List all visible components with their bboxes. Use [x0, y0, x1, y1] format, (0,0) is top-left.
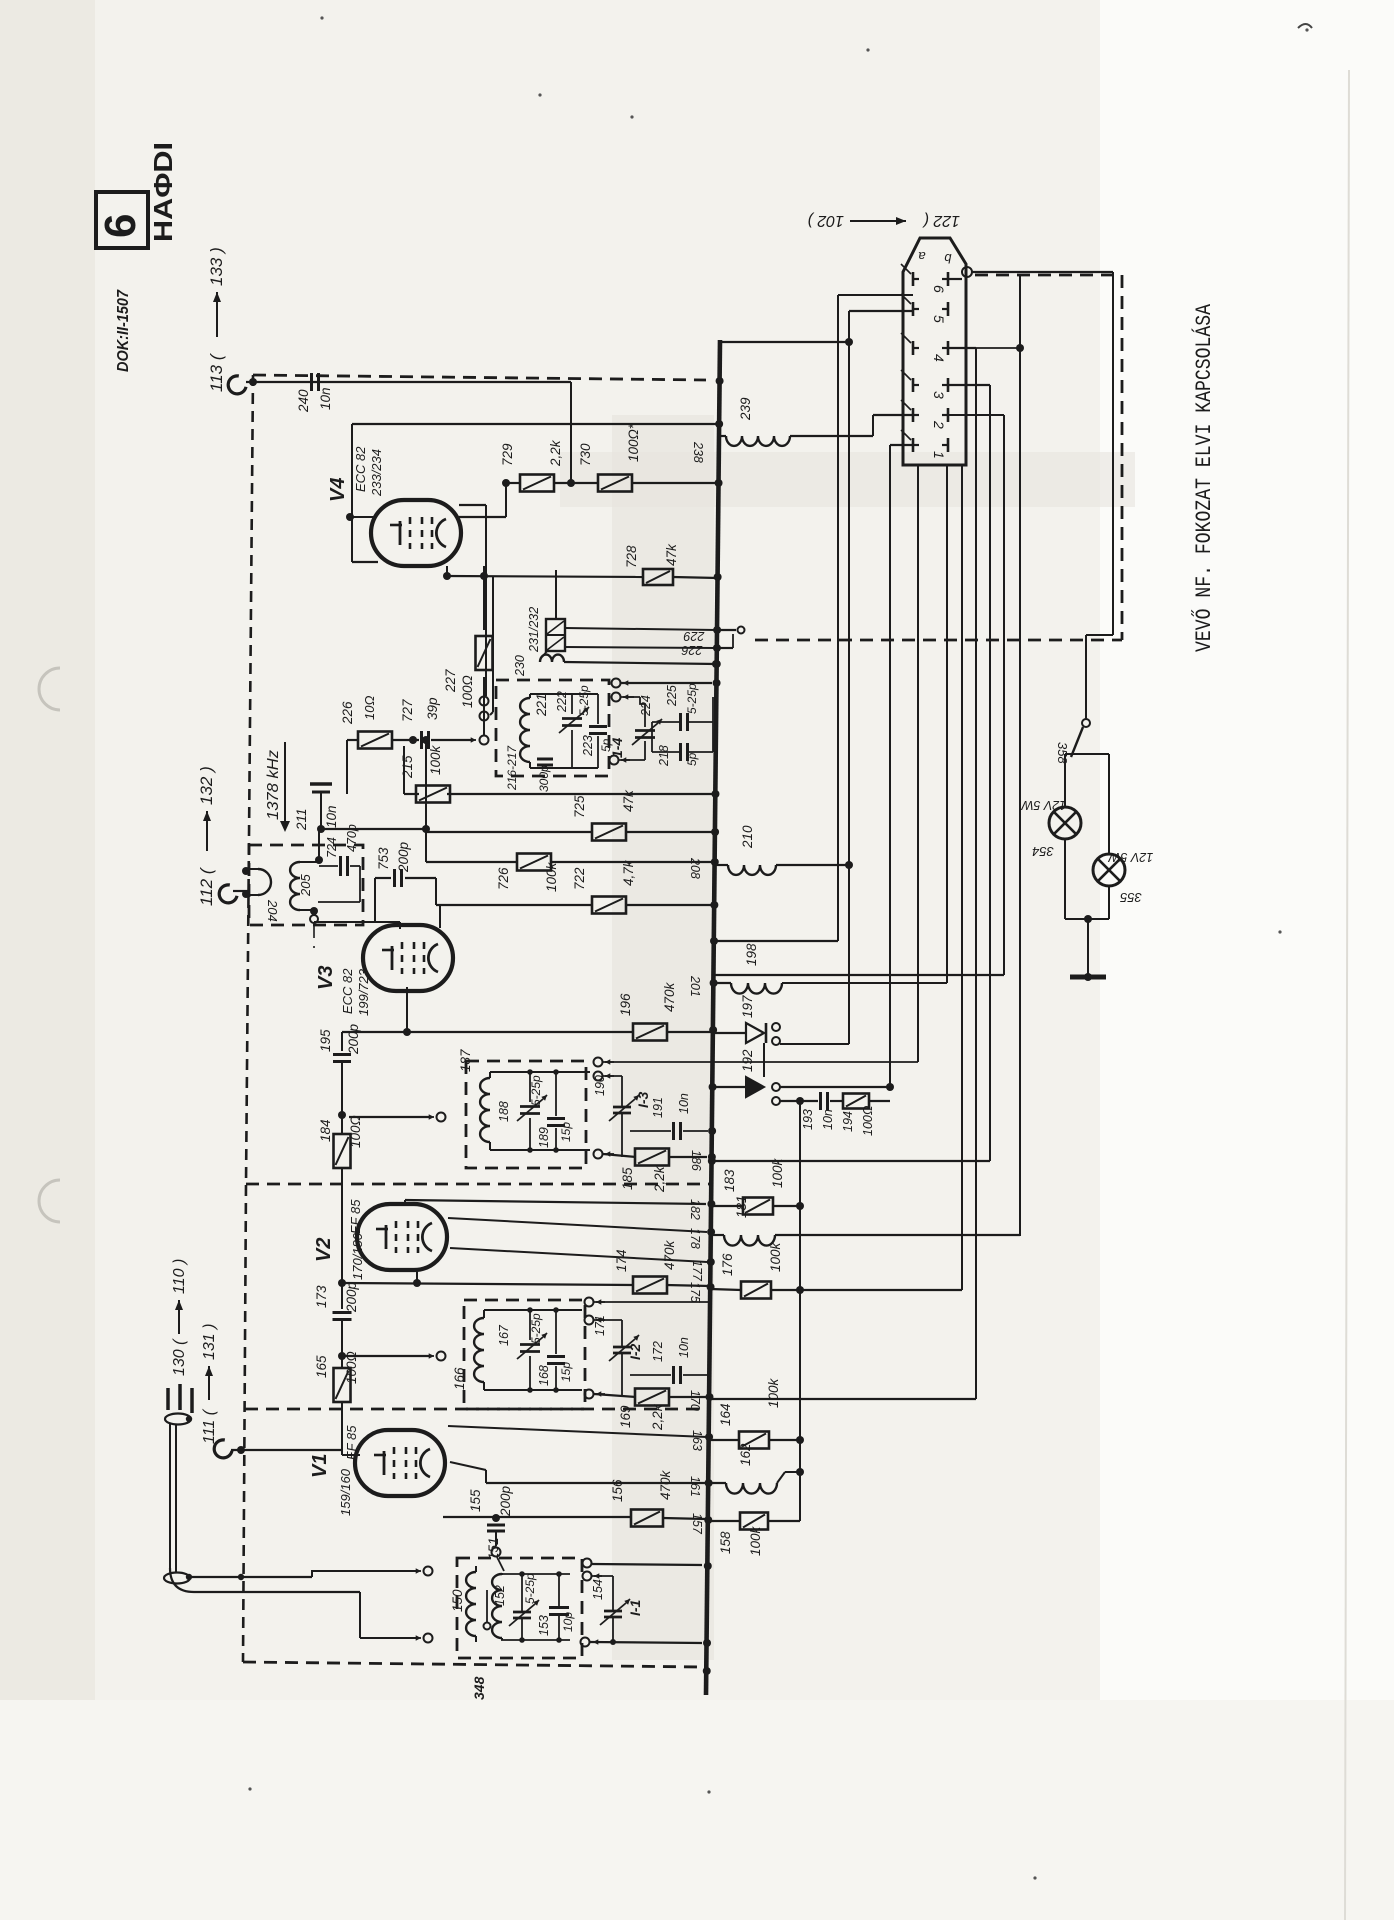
svg-text:174: 174 — [614, 1249, 629, 1272]
svg-text:4,7k: 4,7k — [621, 859, 636, 886]
svg-text:6: 6 — [931, 285, 947, 293]
svg-text:184: 184 — [318, 1119, 333, 1142]
svg-text:10n: 10n — [324, 805, 339, 828]
svg-text:470k: 470k — [662, 1239, 677, 1270]
svg-text:1: 1 — [931, 451, 947, 459]
svg-text:156: 156 — [610, 1479, 625, 1502]
svg-text:204: 204 — [265, 899, 280, 922]
svg-text:165: 165 — [314, 1355, 329, 1378]
svg-text:157: 157 — [690, 1513, 704, 1535]
svg-text:132 ): 132 ) — [197, 766, 216, 805]
svg-text:112 (: 112 ( — [197, 866, 216, 906]
svg-text:726: 726 — [496, 867, 511, 890]
svg-text:100k: 100k — [768, 1241, 783, 1272]
svg-text:150: 150 — [450, 1589, 465, 1612]
svg-text:111 (: 111 ( — [201, 1408, 218, 1444]
svg-text:169: 169 — [618, 1405, 633, 1428]
svg-text:238: 238 — [691, 441, 705, 463]
svg-text:210: 210 — [740, 825, 755, 849]
svg-text:216-217: 216-217 — [505, 745, 519, 791]
svg-text:215: 215 — [400, 755, 415, 779]
svg-text:226: 226 — [682, 643, 704, 657]
svg-text:162: 162 — [738, 1443, 753, 1466]
svg-text:5-25p: 5-25p — [529, 1075, 543, 1106]
svg-text:229: 229 — [684, 629, 706, 643]
svg-text:470k: 470k — [662, 981, 677, 1012]
svg-text:5-25p: 5-25p — [685, 683, 699, 714]
svg-text:727: 727 — [400, 699, 415, 722]
svg-text:10Ω: 10Ω — [362, 696, 377, 720]
svg-text:161: 161 — [688, 1476, 702, 1497]
svg-text:5p: 5p — [685, 752, 699, 766]
svg-text:10n: 10n — [677, 1337, 691, 1358]
svg-text:200p: 200p — [396, 841, 411, 873]
svg-text:208: 208 — [688, 857, 702, 879]
svg-text:5-25p: 5-25p — [529, 1313, 543, 1344]
svg-text:1-4: 1-4 — [609, 738, 625, 758]
svg-text:2,2k: 2,2k — [548, 439, 563, 467]
svg-text:239: 239 — [738, 397, 753, 421]
svg-text:10n: 10n — [318, 387, 333, 410]
svg-text:4: 4 — [931, 354, 947, 362]
svg-text:102 ): 102 ) — [808, 212, 844, 229]
svg-text:182: 182 — [688, 1199, 702, 1220]
svg-text:133 ): 133 ) — [207, 247, 226, 286]
svg-text:186: 186 — [689, 1150, 703, 1171]
svg-text:100k: 100k — [544, 861, 559, 892]
svg-text:753: 753 — [376, 847, 391, 870]
svg-text:200p: 200p — [498, 1485, 513, 1517]
svg-text:470k: 470k — [658, 1469, 673, 1500]
svg-text:V1: V1 — [309, 1454, 331, 1478]
svg-text:6: 6 — [96, 214, 145, 238]
svg-text:224: 224 — [639, 695, 653, 717]
svg-text:183: 183 — [722, 1169, 737, 1192]
svg-text:ECC 82: ECC 82 — [353, 446, 368, 492]
svg-text:47k: 47k — [621, 789, 636, 812]
svg-text:223: 223 — [581, 735, 595, 757]
svg-text:191: 191 — [651, 1097, 665, 1118]
svg-text:348: 348 — [471, 1676, 487, 1700]
svg-text:354: 354 — [1032, 844, 1054, 859]
svg-text:I-1: I-1 — [627, 1599, 643, 1616]
svg-text:198: 198 — [744, 943, 759, 966]
svg-text:122 (: 122 ( — [922, 212, 960, 229]
svg-text:170/180: 170/180 — [350, 1232, 365, 1280]
svg-text:VEVŐ NF. FOKOZAT ELVI KAPCSOLÁ: VEVŐ NF. FOKOZAT ELVI KAPCSOLÁSA — [1191, 303, 1217, 652]
svg-text:722: 722 — [572, 867, 587, 890]
svg-text:187: 187 — [458, 1049, 473, 1072]
svg-text:196: 196 — [618, 993, 633, 1016]
svg-text:177: 177 — [690, 1260, 704, 1282]
svg-text:194: 194 — [841, 1111, 855, 1132]
svg-text:225: 225 — [665, 685, 679, 707]
svg-text:2,2k: 2,2k — [650, 1403, 665, 1431]
svg-text:221: 221 — [534, 693, 549, 717]
svg-text:152: 152 — [493, 1585, 507, 1606]
svg-text:130 (: 130 ( — [171, 1338, 188, 1376]
svg-text:I-3: I-3 — [635, 1091, 651, 1108]
svg-text:113 (: 113 ( — [207, 352, 226, 392]
svg-text:b: b — [944, 251, 951, 266]
svg-text:3: 3 — [931, 391, 947, 399]
svg-text:226: 226 — [340, 701, 355, 725]
svg-text:5: 5 — [931, 315, 947, 323]
svg-text:233/234: 233/234 — [369, 449, 384, 497]
svg-text:1378 kHz: 1378 kHz — [265, 750, 282, 820]
svg-text:195: 195 — [318, 1029, 333, 1052]
svg-text:167: 167 — [497, 1324, 511, 1346]
svg-text:201: 201 — [688, 975, 702, 997]
svg-text:100k: 100k — [770, 1157, 785, 1188]
svg-text:100Ω*: 100Ω* — [626, 423, 641, 462]
svg-text:155: 155 — [468, 1489, 483, 1512]
svg-text:154: 154 — [591, 1579, 605, 1600]
svg-text:HAΦDI: HAΦDI — [148, 142, 178, 242]
svg-text:2,2k: 2,2k — [652, 1165, 667, 1193]
svg-text:724: 724 — [325, 837, 339, 858]
svg-text:EF 85: EF 85 — [348, 1199, 363, 1234]
svg-text:5-25p: 5-25p — [577, 685, 591, 716]
svg-text:199/723: 199/723 — [356, 968, 371, 1016]
svg-text:5-25p: 5-25p — [523, 1573, 537, 1604]
svg-text:10n: 10n — [677, 1093, 691, 1114]
svg-text:197: 197 — [740, 995, 755, 1018]
svg-text:100Ω: 100Ω — [460, 675, 475, 708]
svg-text:15p: 15p — [559, 1122, 573, 1142]
svg-text:164: 164 — [718, 1403, 733, 1426]
svg-text:168: 168 — [537, 1365, 551, 1386]
svg-text:159/160: 159/160 — [338, 1468, 353, 1516]
svg-text:218: 218 — [657, 745, 671, 767]
svg-text:V4: V4 — [327, 478, 349, 502]
svg-text:355: 355 — [1119, 890, 1141, 905]
svg-text:100k: 100k — [428, 744, 443, 775]
svg-text:300p: 300p — [537, 765, 551, 792]
svg-text:200p: 200p — [344, 1281, 359, 1313]
svg-text:15p: 15p — [559, 1362, 573, 1382]
svg-text:728: 728 — [624, 545, 639, 568]
svg-text:192: 192 — [740, 1049, 755, 1072]
svg-text:185: 185 — [620, 1167, 635, 1190]
svg-text:230: 230 — [513, 655, 527, 677]
svg-text:205: 205 — [298, 874, 313, 897]
svg-text:222: 222 — [555, 691, 569, 713]
svg-text:EF 85: EF 85 — [344, 1425, 359, 1460]
svg-text:227: 227 — [443, 669, 458, 693]
svg-text:172: 172 — [651, 1341, 665, 1362]
svg-text:100k: 100k — [766, 1377, 781, 1408]
svg-text:189: 189 — [537, 1127, 551, 1148]
svg-text:188: 188 — [497, 1101, 511, 1122]
svg-text:170: 170 — [688, 1390, 702, 1411]
svg-text:V2: V2 — [313, 1238, 335, 1262]
svg-text:470p: 470p — [345, 824, 359, 852]
svg-text:153: 153 — [537, 1615, 551, 1636]
svg-text:730: 730 — [578, 443, 593, 466]
svg-text:39p: 39p — [425, 697, 440, 720]
svg-text:131 ): 131 ) — [201, 1324, 218, 1360]
svg-text:V3: V3 — [315, 966, 337, 990]
svg-text:211: 211 — [294, 808, 309, 831]
svg-text:10p: 10p — [561, 1612, 575, 1632]
svg-text:173: 173 — [314, 1285, 329, 1308]
svg-text:231/232: 231/232 — [527, 607, 541, 653]
svg-text:12V 5W: 12V 5W — [1108, 850, 1154, 864]
svg-text:110 ): 110 ) — [171, 1259, 188, 1294]
svg-text:190: 190 — [593, 1075, 607, 1096]
svg-text:176: 176 — [720, 1253, 735, 1276]
svg-text:100Ω: 100Ω — [861, 1105, 875, 1136]
svg-text:2: 2 — [931, 420, 947, 429]
svg-text:12V 5W: 12V 5W — [1021, 798, 1067, 812]
svg-text:a: a — [918, 249, 925, 264]
svg-text:100Ω: 100Ω — [348, 1115, 363, 1148]
svg-text:729: 729 — [500, 443, 515, 466]
svg-text:725: 725 — [572, 795, 587, 818]
svg-text:158: 158 — [718, 1531, 733, 1554]
svg-text:163: 163 — [690, 1430, 704, 1451]
svg-text:151: 151 — [486, 1537, 501, 1560]
svg-text:10n: 10n — [821, 1109, 835, 1130]
svg-text:240: 240 — [296, 389, 311, 413]
svg-text:100k: 100k — [748, 1525, 763, 1556]
svg-text:193: 193 — [801, 1109, 815, 1130]
svg-text:200p: 200p — [346, 1023, 361, 1055]
svg-text:47k: 47k — [664, 543, 679, 566]
svg-text:I-2: I-2 — [627, 1343, 643, 1360]
svg-text:ECC 82: ECC 82 — [340, 968, 355, 1014]
svg-text:DOK:II-1507: DOK:II-1507 — [115, 289, 132, 372]
svg-text:166: 166 — [452, 1367, 467, 1390]
svg-text:171: 171 — [593, 1315, 607, 1336]
